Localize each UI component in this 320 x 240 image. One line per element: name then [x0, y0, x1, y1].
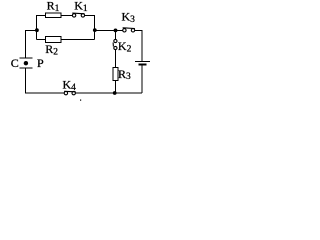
battery long plate — [135, 60, 150, 62]
wire node B down to K2 — [115, 30, 117, 39]
switch K2 lever — [112, 43, 114, 47]
resistor R3 — [113, 68, 118, 81]
junction dot below R3 — [113, 91, 117, 95]
wire K3 to top-right corner and down to battery — [135, 30, 142, 60]
junction dot left of K3 — [93, 28, 97, 32]
capacitor C top plate — [20, 57, 33, 59]
battery short plate — [139, 63, 147, 65]
svg-text:C: C — [11, 56, 19, 70]
wire middle from loop to K3 — [95, 29, 123, 31]
wire K4 to bottom-right corner — [75, 92, 142, 94]
wire capacitor to bottom-left corner — [25, 68, 64, 93]
wire node A to capacitor branch — [25, 30, 37, 58]
switch K3 contacts — [123, 29, 126, 32]
resistor R1 — [46, 13, 62, 18]
switch K1 lever — [72, 12, 84, 15]
wire R1 to K1 — [61, 15, 72, 17]
node A junction dot — [35, 28, 39, 32]
switch K2 contacts — [114, 39, 117, 42]
wire left side of R1/R2 loop — [37, 16, 46, 40]
resistor R2 — [45, 37, 61, 43]
capacitor C bottom plate — [20, 67, 33, 69]
wire right side of loop to R2 — [61, 39, 95, 41]
wire battery to bottom-right corner — [141, 65, 143, 93]
particle P dot inside capacitor — [24, 61, 28, 65]
stray dot artifact — [80, 100, 81, 101]
switch K3 lever — [123, 27, 135, 30]
svg-text:P: P — [37, 56, 44, 70]
wire R2 to node A — [37, 39, 46, 41]
switch K1 contacts — [72, 14, 75, 17]
wire R3 to bottom wire — [115, 81, 117, 94]
wire K1 to right side of loop — [85, 16, 95, 40]
node B junction dot — [114, 29, 118, 33]
switch K4 lever — [64, 90, 76, 93]
switch K4 contacts — [64, 91, 67, 94]
wire K2 to R3 — [115, 50, 117, 68]
